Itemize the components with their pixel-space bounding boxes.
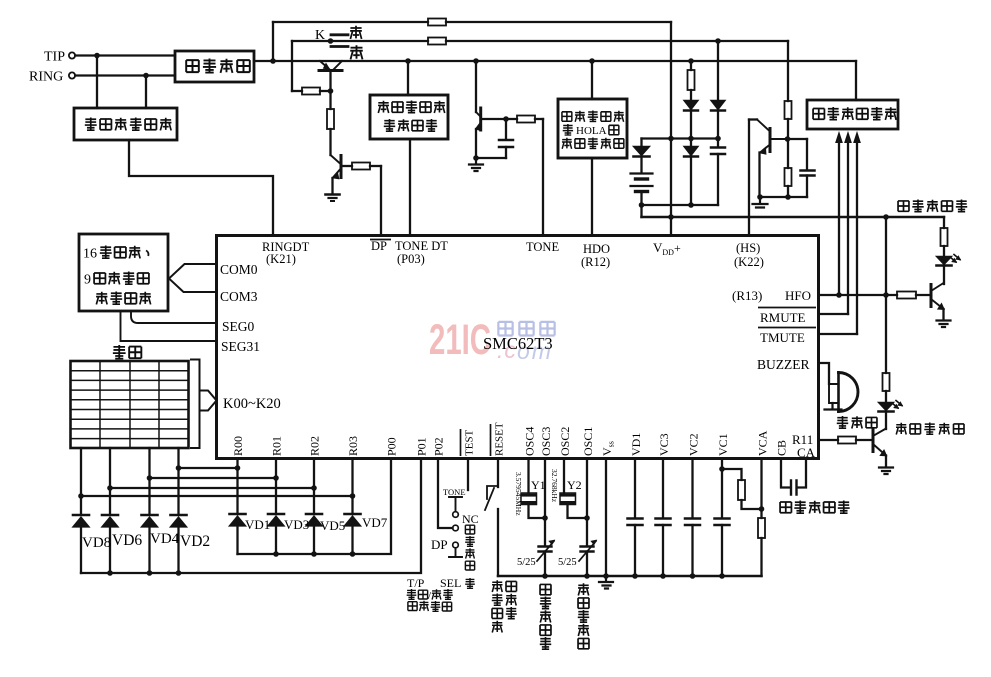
diode battery branch — [640, 139, 642, 147]
wire battery to VDD rail — [640, 205, 642, 217]
wire BUZZER pin — [819, 363, 829, 384]
svg-text:VD7: VD7 — [362, 515, 388, 530]
buzzer — [829, 384, 839, 403]
box voice network circuit — [807, 100, 898, 129]
switch K contact bars — [331, 35, 348, 47]
svg-text:TONE: TONE — [443, 487, 466, 497]
svg-text:R03: R03 — [346, 436, 360, 456]
label box: voice network circuit — [813, 107, 896, 120]
wire HDO branch riser — [591, 61, 593, 99]
wire ring-detect output to RINGDT pin — [129, 140, 273, 235]
switch T/P selector — [449, 497, 462, 511]
label switch open — [350, 26, 362, 39]
wire OSC3 pin — [544, 459, 546, 546]
capacitor VC1 — [715, 519, 730, 526]
wire TIP to shaper box — [75, 54, 175, 56]
transistor Q4 HS — [748, 120, 750, 236]
wire VC2 pin — [691, 459, 693, 518]
resistor VCA — [758, 518, 765, 538]
label quartz oscillator column — [578, 583, 589, 649]
label box: LCD line3 — [96, 292, 151, 305]
capacitor branch x718 — [711, 148, 725, 155]
svg-text:VD2: VD2 — [180, 533, 210, 550]
wire keyboard column 3 — [148, 448, 150, 514]
wire VCA pin — [760, 459, 762, 518]
svg-text:DP: DP — [431, 537, 448, 552]
label DP overline — [370, 239, 391, 241]
wire VDD rail — [642, 216, 945, 219]
svg-text:(P03): (P03) — [397, 252, 425, 266]
diode VD3 — [268, 513, 284, 516]
svg-text:VD8: VD8 — [82, 535, 111, 551]
wire TMUTE pin — [819, 333, 857, 335]
capacitor boost — [791, 481, 797, 495]
diode branch x691 upper — [684, 101, 698, 110]
label box: ring detect circuit — [85, 118, 172, 131]
crystal Y2 — [560, 493, 576, 505]
wire R03 pin down — [351, 459, 353, 514]
pushbutton reset — [487, 486, 498, 499]
svg-text:SEL: SEL — [440, 576, 461, 590]
diode VD1 — [230, 513, 246, 516]
wire CB pin to boost cap — [781, 459, 791, 488]
resistor Q2 base to DP — [341, 165, 352, 167]
svg-text:OSC3: OSC3 — [539, 427, 553, 456]
svg-text:Y2: Y2 — [567, 478, 582, 492]
wire P02 to T/P switch — [438, 459, 453, 528]
label box: hold music line2 — [563, 124, 619, 137]
transistor Q6 mute — [872, 430, 875, 452]
wire SEG0 — [131, 311, 217, 323]
IC SMC62xx body — [217, 236, 819, 459]
box shaping circuit — [175, 51, 254, 82]
wire TIP down to ring-detect box — [96, 56, 98, 109]
svg-text:HOLA: HOLA — [576, 125, 607, 137]
wire hold box to HDO pin — [591, 160, 593, 235]
ground Q2 emitter — [326, 193, 340, 196]
wire top supply line left part — [273, 21, 428, 23]
svg-text:SEG0: SEG0 — [222, 319, 255, 334]
svg-text:VC2: VC2 — [687, 433, 701, 456]
label init button two columns — [492, 580, 517, 632]
diode VD2 — [171, 514, 187, 517]
svg-text:32.768kHz: 32.768kHz — [550, 469, 559, 503]
wire VC3 pin — [662, 459, 664, 518]
diode VD5 — [306, 513, 322, 516]
svg-text:3.579545MHz: 3.579545MHz — [514, 472, 523, 516]
ground Vss — [599, 576, 613, 589]
label TMUTE with overline — [758, 327, 816, 329]
wire RMUTE pin — [819, 313, 848, 315]
svg-text:NC: NC — [462, 512, 479, 526]
svg-text:RING: RING — [29, 70, 63, 85]
resistor handsfree LED — [941, 228, 948, 246]
ground Q5 — [937, 321, 951, 328]
IC bottom pin labels rotated — [231, 422, 789, 456]
label handsfree indicator lamp — [898, 200, 967, 212]
svg-text:VC3: VC3 — [657, 433, 671, 456]
wire keyboard column 1 — [80, 448, 82, 514]
svg-text:VD4: VD4 — [150, 531, 180, 547]
label box: shaping circuit (zheng xing dian lu) — [186, 59, 250, 73]
wire VD1 pin — [634, 459, 636, 518]
wire boost cap to CA pin — [797, 459, 806, 488]
wire HS node — [788, 138, 808, 140]
resistor in second top line — [428, 38, 446, 45]
svg-text:9: 9 — [84, 273, 91, 288]
wire to TONE pin — [542, 119, 544, 235]
wire second top line left part — [292, 40, 428, 42]
resistor branch x691 — [690, 61, 692, 70]
svg-text:RMUTE: RMUTE — [760, 310, 806, 325]
transistor Q1 pass — [320, 61, 342, 69]
label buzzer — [837, 416, 877, 428]
label boost capacitor — [780, 501, 850, 514]
svg-text:BUZZER: BUZZER — [757, 357, 810, 372]
box ring detect circuit — [74, 108, 177, 140]
resistor R11 base — [838, 437, 856, 444]
ground Q6 — [879, 468, 893, 475]
svg-text:5/25: 5/25 — [517, 557, 536, 568]
svg-text:P00: P00 — [385, 437, 399, 456]
wire odd-diode rail to P00 — [238, 459, 392, 554]
svg-text:SMC62T3: SMC62T3 — [483, 334, 553, 353]
trimmer capacitor 5/25 no2 — [581, 547, 594, 552]
ground Q3 — [469, 158, 483, 171]
wire OSC1 pin — [586, 459, 588, 546]
label mute indicator lamp — [896, 423, 964, 435]
wire second line left corner — [291, 41, 293, 91]
svg-text:VD1: VD1 — [245, 517, 270, 532]
svg-text:OSC2: OSC2 — [558, 427, 572, 456]
wire HS emitter rail — [760, 196, 808, 198]
wire Q3 emitter rail — [476, 157, 506, 159]
label keyboard — [113, 345, 141, 359]
wire R01 pin down — [275, 459, 277, 514]
svg-text:TONE: TONE — [526, 240, 559, 254]
label box: busy tone detect line2 — [384, 119, 437, 131]
capacitor HS — [806, 139, 808, 170]
terminal RING — [69, 72, 75, 78]
label box: hold music line1 — [562, 111, 624, 122]
wire OSC2 pin — [563, 459, 565, 493]
diode VD4 — [142, 514, 158, 517]
keyboard grid — [71, 361, 189, 448]
svg-text:CA: CA — [797, 445, 816, 460]
resistor HFO base — [897, 292, 916, 299]
box LCD display — [79, 234, 168, 311]
ground HS — [753, 197, 768, 208]
wire R02 pin down — [313, 459, 315, 514]
diode branch x718 — [717, 41, 719, 100]
resistor mute LED — [883, 373, 890, 391]
diode VD6 — [102, 514, 118, 517]
wire OSC4 pin — [527, 459, 529, 493]
svg-text:(K22): (K22) — [734, 255, 764, 269]
wire oscillator ground rail — [498, 575, 762, 578]
svg-text:21IC: 21IC — [429, 316, 491, 364]
labels: terminals and pins — [29, 28, 816, 590]
svg-text:COM0: COM0 — [220, 262, 258, 277]
wire RESET pin — [497, 459, 499, 487]
wire riser to top supply line — [272, 22, 274, 61]
label test input column — [465, 525, 475, 588]
wire crosslink R00-col4 — [179, 467, 238, 469]
label switch close — [350, 45, 363, 59]
svg-text:VD1: VD1 — [629, 433, 643, 456]
svg-text:K00~K20: K00~K20 — [223, 396, 281, 412]
box busy-tone detect — [370, 95, 448, 139]
box hold-music circuit — [558, 99, 627, 158]
svg-text:TONE DT: TONE DT — [395, 239, 448, 253]
svg-text:HDO: HDO — [583, 242, 610, 256]
svg-text:T/P: T/P — [407, 576, 425, 590]
svg-text:16: 16 — [83, 247, 97, 262]
pin TEST overline — [460, 429, 462, 456]
wire busy box to TONE DT pin — [409, 140, 411, 235]
capacitor VC2 — [685, 519, 700, 526]
wire Vss pin — [605, 459, 607, 576]
wire cross link y138 — [642, 137, 719, 139]
svg-text:R02: R02 — [308, 436, 322, 456]
wire RING down to ring-detect box — [145, 76, 147, 109]
svg-text:COM3: COM3 — [220, 289, 258, 304]
bus chevron K00-K20 — [200, 391, 217, 411]
diode branch x691 lower — [684, 147, 698, 156]
svg-text:OSC1: OSC1 — [581, 427, 595, 456]
svg-text:P01: P01 — [415, 437, 429, 456]
wire TEST pin stub — [467, 459, 469, 490]
battery — [640, 157, 642, 174]
terminal TIP — [69, 52, 75, 58]
wire y205 link — [642, 204, 719, 206]
svg-text:P02: P02 — [432, 437, 446, 456]
wire HFO pin line — [819, 294, 897, 296]
wire second top line right part — [446, 40, 788, 42]
wire to DP pin — [380, 166, 382, 235]
trimmer capacitor 5/25 no1 — [539, 547, 552, 552]
wire crosslink R01-col3 — [150, 477, 277, 479]
wire arrow HFO to voice box — [838, 141, 840, 295]
label box: LCD line1 16-digit — [83, 246, 148, 262]
svg-text:TEST: TEST — [464, 429, 476, 456]
svg-text:VCA: VCA — [756, 430, 770, 456]
svg-text:VC1: VC1 — [716, 433, 730, 456]
svg-text:(K21): (K21) — [266, 252, 296, 266]
resistor HS emitter — [787, 139, 789, 168]
wire supply drop to VDD rail — [670, 22, 672, 235]
keyboard bracket — [191, 360, 200, 449]
wire VC1 pin — [721, 459, 723, 518]
wire arrow RMUTE to voice box — [847, 141, 849, 314]
svg-text:OSC4: OSC4 — [523, 427, 537, 456]
wire R00 pin down — [236, 459, 238, 514]
resistor Q1 collector load — [329, 91, 331, 109]
watermark CJK blue — [498, 322, 512, 336]
wire top supply line right part — [446, 21, 671, 23]
svg-text:R01: R01 — [270, 436, 284, 456]
resistor Q1 base — [292, 90, 302, 92]
label T/P select lines — [407, 589, 453, 611]
svg-text:SEG31: SEG31 — [221, 339, 260, 354]
wire VC1 tap to resistor — [722, 469, 742, 480]
capacitor VD1 — [628, 519, 643, 526]
capacitor VC3 — [656, 519, 671, 526]
resistor to TONE pin — [506, 118, 517, 120]
svg-text:TIP: TIP — [44, 50, 65, 65]
svg-text:RESET: RESET — [494, 422, 506, 456]
wire keyboard column 4 — [177, 448, 179, 514]
pin RESET overline — [490, 424, 492, 456]
wire R11 pin — [819, 439, 838, 441]
svg-text:VD5: VD5 — [320, 518, 345, 533]
wire main hookswitch line — [254, 60, 856, 62]
label box: busy tone detect line1 — [378, 101, 445, 113]
svg-text:Y1: Y1 — [531, 478, 546, 492]
LED handsfree — [937, 257, 952, 265]
svg-text:VD6: VD6 — [112, 532, 142, 549]
wire SEG31 — [121, 311, 217, 341]
wire keyboard column 2 — [109, 448, 111, 514]
svg-text:CB: CB — [775, 440, 789, 456]
transistor Q2 — [331, 155, 340, 163]
svg-text:(R12): (R12) — [581, 255, 610, 269]
wire arrow TMUTE to voice box — [856, 141, 858, 334]
svg-text:K: K — [315, 28, 325, 43]
resistor in top supply line — [428, 19, 446, 26]
wire supply corner to handsfree chain — [943, 217, 945, 228]
wire RING to shaper box — [75, 74, 175, 76]
wire COM bus chevron — [169, 264, 217, 279]
resistor HS supply — [787, 41, 789, 101]
label ceramic oscillator column — [540, 584, 551, 649]
svg-text:DP: DP — [371, 239, 387, 253]
LED mute — [879, 403, 894, 411]
wire even-diode rail to P01 — [81, 459, 421, 573]
svg-text:R00: R00 — [231, 436, 245, 456]
wire main line corner to voice box — [855, 61, 857, 100]
svg-text:TMUTE: TMUTE — [760, 330, 805, 345]
diode VD8 — [73, 514, 89, 517]
wire crosslink R03-col1 — [81, 495, 353, 497]
wire crosslink R02-col2 — [110, 487, 314, 489]
crystal Y1 — [521, 493, 537, 505]
svg-text:(R13): (R13) — [732, 288, 762, 303]
wire busy box to main line — [407, 61, 409, 95]
svg-text:HFO: HFO — [785, 288, 811, 303]
capacitor C busy — [481, 119, 506, 140]
label RMUTE with overline — [758, 307, 816, 309]
svg-text:VD3: VD3 — [284, 517, 309, 532]
diode VD7 — [345, 513, 361, 516]
transistor Q5 handsfree — [930, 285, 933, 307]
wire mute chain from rail — [885, 217, 887, 373]
svg-text:(HS): (HS) — [736, 241, 760, 255]
resistor VC1-VCA — [738, 480, 745, 500]
label box: hold music line3 — [562, 138, 624, 149]
transistor Q3 busy — [475, 61, 477, 112]
svg-text:5/25: 5/25 — [558, 557, 577, 568]
label box: LCD line2 — [84, 272, 149, 288]
